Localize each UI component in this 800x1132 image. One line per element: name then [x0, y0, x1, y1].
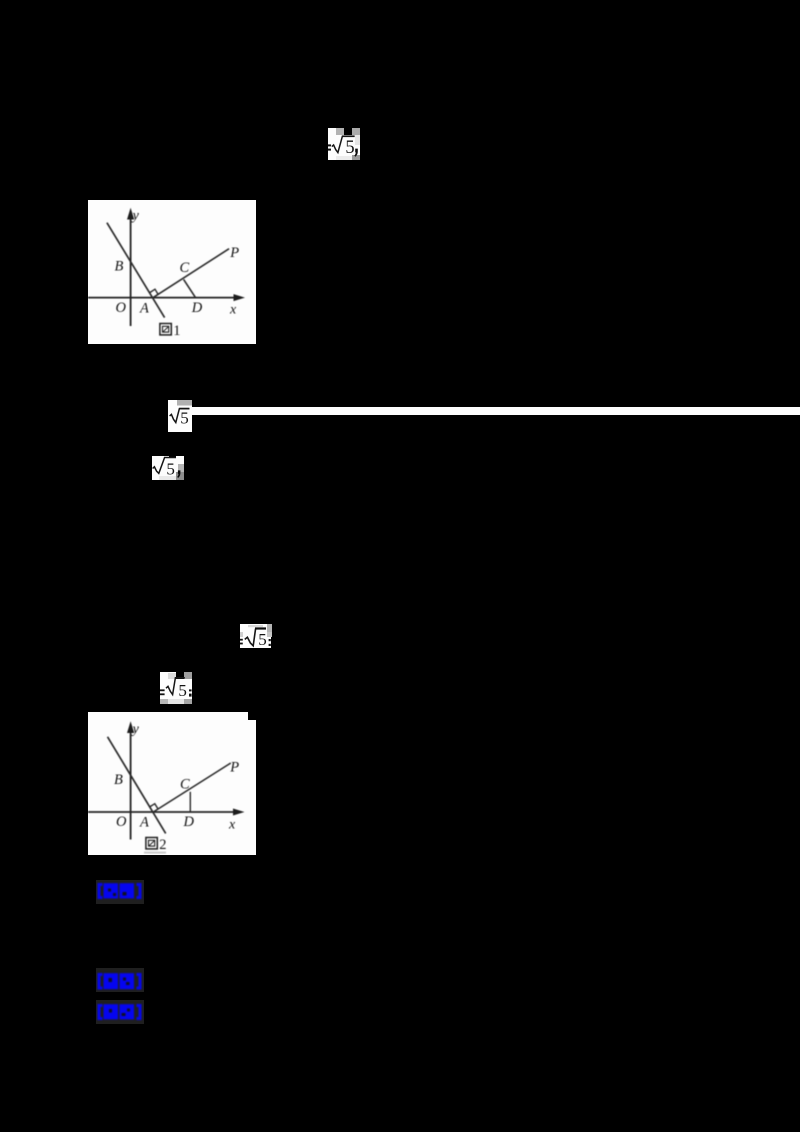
svg-text:5: 5 [345, 138, 354, 158]
right-angle mark at A [150, 804, 158, 809]
svg-text:B: B [114, 772, 123, 788]
equation patch E4 "=√5:" [240, 624, 272, 648]
svg-text:O: O [116, 300, 127, 316]
svg-text:D: D [183, 814, 195, 830]
line through B and A [108, 737, 166, 834]
caption 图2 [146, 838, 157, 849]
blank underline [192, 407, 800, 415]
blue tag block 2 [96, 968, 144, 992]
segment CD [184, 279, 196, 297]
right-angle mark at A [150, 289, 158, 294]
x-axis [88, 811, 239, 813]
svg-text:P: P [229, 245, 239, 261]
blue tag block 3 [96, 1000, 144, 1024]
y-axis [130, 216, 132, 326]
svg-text:A: A [139, 815, 149, 831]
svg-text:P: P [229, 760, 239, 776]
ray AP [153, 249, 229, 298]
equation patch E1 "=√5," [328, 128, 360, 160]
svg-text:A: A [139, 301, 149, 317]
segment CD (vertical) [189, 792, 191, 812]
line through B and A [107, 223, 165, 318]
svg-text:y: y [131, 722, 140, 737]
svg-text:5: 5 [258, 630, 267, 648]
equation patch E5 "=√5," [160, 672, 192, 704]
figure 1 box [88, 200, 256, 344]
svg-text:C: C [180, 777, 190, 793]
caption 图1 [160, 324, 171, 335]
svg-text:5: 5 [178, 681, 187, 700]
blue left bracket [99, 975, 103, 989]
blue left bracket [99, 885, 103, 898]
svg-text:5: 5 [180, 408, 189, 427]
y-axis [130, 730, 132, 840]
svg-text:D: D [191, 300, 203, 316]
notch top-right [248, 712, 256, 720]
equation patch E3 "√5," [152, 456, 184, 480]
svg-text:O: O [116, 814, 127, 830]
svg-text:x: x [228, 818, 236, 833]
svg-text:1: 1 [173, 323, 180, 339]
x-axis [88, 297, 239, 299]
blue tag block 1 [96, 880, 144, 904]
svg-text:2: 2 [159, 837, 166, 853]
svg-text:B: B [115, 258, 124, 274]
svg-text:C: C [180, 260, 190, 276]
blue left bracket [99, 1006, 103, 1019]
ray AP [153, 763, 231, 812]
figure 2 box [88, 712, 256, 855]
equation patch E2 "√5" [168, 400, 192, 432]
svg-text:5: 5 [166, 460, 175, 479]
svg-text:y: y [131, 209, 140, 224]
svg-text:x: x [229, 303, 237, 318]
